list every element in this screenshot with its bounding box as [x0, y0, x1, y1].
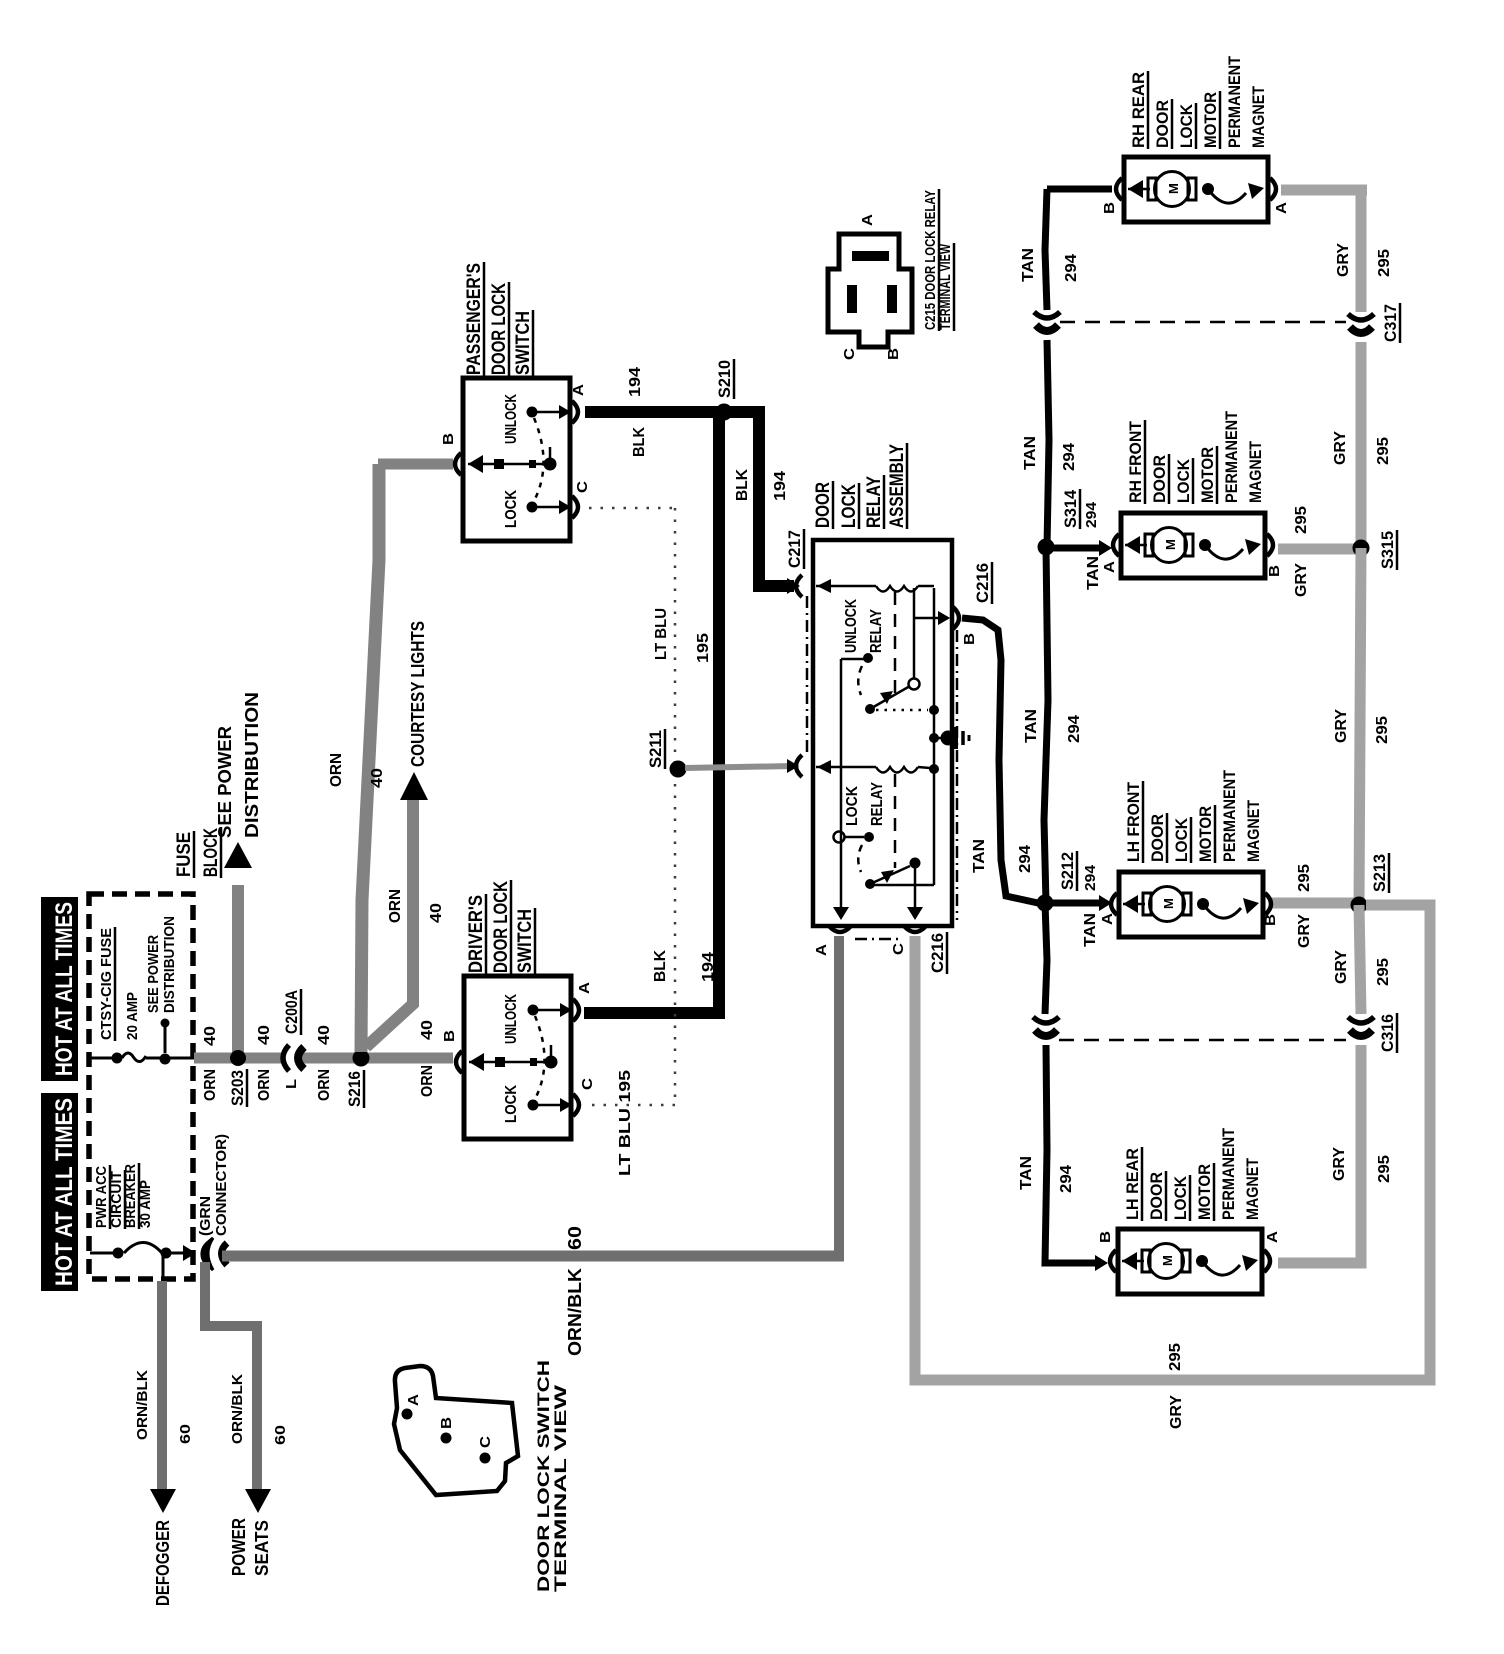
svg-text:A: A: [576, 982, 593, 994]
svg-text:TERMINAL VIEW: TERMINAL VIEW: [551, 1384, 570, 1592]
svg-text:MOTOR: MOTOR: [1198, 447, 1217, 503]
splice S314: [1038, 539, 1055, 556]
svg-text:PERMANENT: PERMANENT: [1219, 1127, 1238, 1220]
svg-text:RELAY: RELAY: [864, 476, 885, 528]
wire TAN 294 S212 to C316: [1045, 903, 1047, 1014]
svg-text:SEATS: SEATS: [252, 1520, 272, 1576]
svg-text:C216: C216: [973, 563, 992, 603]
svg-text:BLK: BLK: [652, 950, 669, 982]
relay output line to C216 B: [914, 617, 944, 620]
svg-text:LOCK: LOCK: [1174, 458, 1193, 503]
svg-text:MOTOR: MOTOR: [1196, 806, 1215, 862]
splice S315: [1353, 540, 1370, 557]
svg-text:RELAY: RELAY: [869, 782, 886, 826]
wire ORN 40 courtesy lights branch: [366, 800, 413, 1047]
svg-text:BLK: BLK: [631, 427, 648, 457]
connector C317 (GRY side): [1348, 314, 1374, 320]
svg-text:A: A: [1273, 202, 1290, 214]
splice S203: [230, 1050, 246, 1066]
svg-text:PASSENGER'S: PASSENGER'S: [464, 263, 485, 375]
svg-text:CTSY-CIG FUSE: CTSY-CIG FUSE: [98, 928, 115, 1040]
wire TAN 294 S314 to S212: [1044, 547, 1048, 903]
svg-text:S315: S315: [1378, 531, 1397, 569]
dashed line connector C316: [1059, 1039, 1346, 1042]
svg-text:DOOR: DOOR: [1150, 455, 1169, 503]
wire BLK 194 S210 to driver A: [713, 412, 725, 1013]
svg-text:C316: C316: [1378, 1014, 1397, 1052]
pin C C216: [907, 907, 923, 920]
svg-text:LOCK: LOCK: [844, 786, 861, 826]
connector (GRN CONNECTOR): [203, 1238, 213, 1270]
svg-text:LOCK: LOCK: [1177, 103, 1196, 148]
svg-text:TAN: TAN: [1018, 1156, 1035, 1190]
connector C200A: [283, 1052, 296, 1065]
lock relay coil: [817, 760, 831, 774]
connector view DOOR LOCK SWITCH TERMINAL VIEW: [394, 1366, 518, 1495]
wire GRY 295 S315 to S213: [1359, 548, 1361, 905]
svg-text:295: 295: [1167, 1343, 1184, 1371]
svg-text:SWITCH: SWITCH: [515, 909, 536, 973]
svg-text:LOCK: LOCK: [1171, 1175, 1190, 1220]
svg-text:20 AMP: 20 AMP: [124, 992, 141, 1040]
svg-text:TAN: TAN: [1022, 436, 1039, 470]
svg-text:295: 295: [1376, 1155, 1393, 1183]
motor RH REAR DOOR LOCK MOTOR PERMANENT MAGNET: [1124, 157, 1268, 222]
svg-text:TERMINAL VIEW: TERMINAL VIEW: [937, 243, 954, 330]
svg-text:B: B: [438, 1417, 455, 1429]
svg-text:UNLOCK: UNLOCK: [503, 394, 520, 444]
wire GRY 295 relay C216 C to S213 (loop): [915, 905, 1430, 1380]
svg-text:295: 295: [1374, 716, 1391, 744]
svg-text:LOCK: LOCK: [503, 1085, 520, 1123]
svg-text:GRY: GRY: [1168, 1395, 1185, 1429]
svg-text:294: 294: [1058, 1165, 1075, 1193]
svg-text:40: 40: [428, 903, 445, 923]
svg-text:195: 195: [695, 633, 712, 663]
unlock relay mech link (dashed): [894, 592, 897, 697]
svg-text:C: C: [477, 1436, 494, 1448]
wire GRY 295 trunk to C317: [1356, 190, 1367, 312]
svg-text:B: B: [961, 633, 978, 645]
svg-text:LT BLU: LT BLU: [653, 608, 670, 660]
svg-text:40: 40: [369, 768, 386, 788]
svg-text:RH FRONT: RH FRONT: [1126, 420, 1145, 503]
svg-text:RH REAR: RH REAR: [1129, 72, 1148, 148]
wire TAN 294 C216 B to S212: [962, 618, 1038, 903]
splice S213: [1351, 897, 1368, 914]
svg-text:ORN: ORN: [328, 753, 345, 787]
svg-text:C: C: [579, 1078, 596, 1090]
svg-text:A: A: [813, 944, 830, 956]
svg-text:MAGNET: MAGNET: [1243, 1157, 1262, 1220]
svg-text:SEE POWER: SEE POWER: [215, 726, 235, 838]
svg-text:DOOR: DOOR: [813, 482, 834, 528]
svg-text:DOOR LOCK: DOOR LOCK: [489, 283, 510, 375]
pin B C216: [938, 611, 950, 625]
svg-text:40: 40: [256, 1025, 273, 1045]
svg-text:C216: C216: [928, 933, 947, 973]
connector C317 (TAN side): [1034, 312, 1060, 318]
splice S211: [670, 761, 687, 778]
wire breaker to ign connector: [183, 1245, 196, 1261]
svg-text:TAN: TAN: [1082, 913, 1099, 947]
connector view C215 DOOR LOCK RELAY TERMINAL VIEW: [828, 234, 912, 347]
svg-text:ORN: ORN: [387, 889, 404, 923]
svg-text:(GRN: (GRN: [197, 1196, 214, 1236]
svg-text:LH FRONT: LH FRONT: [1124, 781, 1143, 862]
svg-text:M: M: [1160, 1255, 1175, 1266]
svg-text:295: 295: [1376, 249, 1393, 277]
wire BLK 194 S210 to C217: [724, 412, 794, 586]
wire LT BLU 195 dotted passenger C to driver C: [589, 507, 673, 510]
svg-text:40: 40: [202, 1026, 219, 1046]
svg-text:194: 194: [700, 952, 717, 982]
svg-text:40: 40: [316, 1025, 333, 1045]
svg-text:GRY: GRY: [1332, 431, 1349, 465]
svg-text:MOTOR: MOTOR: [1201, 92, 1220, 148]
svg-text:S314: S314: [1061, 489, 1080, 528]
wire ORN 40 fuse to driver's switch: [194, 1053, 453, 1064]
svg-text:DEFOGGER: DEFOGGER: [153, 1520, 173, 1606]
svg-text:S203: S203: [228, 1070, 247, 1106]
svg-text:ASSEMBLY: ASSEMBLY: [887, 444, 908, 528]
unlock relay rest contact (dotted): [876, 709, 928, 712]
svg-text:S213: S213: [1370, 854, 1389, 892]
svg-text:M: M: [1166, 183, 1181, 194]
wire TAN 294 S314 to RH front A: [1046, 545, 1104, 552]
wire TAN 294 trunk RH rear to C317: [1047, 186, 1112, 193]
svg-text:C: C: [841, 348, 858, 360]
fuse CTSY-CIG FUSE 20 AMP: [90, 1057, 117, 1060]
svg-text:B: B: [441, 1030, 458, 1042]
svg-text:30 AMP: 30 AMP: [137, 1180, 154, 1228]
svg-text:194: 194: [627, 367, 644, 397]
svg-text:GRY: GRY: [1293, 563, 1310, 597]
svg-text:A: A: [405, 1394, 422, 1406]
fuse block outline: [89, 894, 193, 1279]
svg-text:TAN: TAN: [1023, 709, 1040, 743]
wire GRY 295 S213 to C316: [1359, 905, 1361, 1014]
svg-text:A: A: [1101, 561, 1118, 573]
wire GRY 295 C317 to S315: [1356, 342, 1367, 548]
lock relay mech link (dashed): [894, 774, 897, 868]
switch PASSENGER'S DOOR LOCK SWITCH: [463, 378, 570, 541]
svg-text:ORN/BLK: ORN/BLK: [565, 1268, 585, 1356]
switch DRIVER'S DOOR LOCK SWITCH: [464, 976, 571, 1139]
svg-text:UNLOCK: UNLOCK: [503, 994, 520, 1044]
svg-text:PERMANENT: PERMANENT: [1222, 410, 1241, 503]
see power distribution tap (fuse block): [164, 1026, 167, 1053]
svg-text:COURTESY LIGHTS: COURTESY LIGHTS: [408, 621, 428, 767]
wire ORN see power distribution riser: [232, 885, 244, 1055]
relay internal feed line (pin A riser): [840, 659, 843, 912]
connector C217: [796, 575, 802, 597]
svg-text:60: 60: [177, 1424, 194, 1444]
svg-text:S210: S210: [715, 360, 734, 398]
svg-text:GRY: GRY: [1333, 950, 1350, 984]
svg-text:S216: S216: [345, 1071, 364, 1107]
svg-text:LH REAR: LH REAR: [1123, 1148, 1142, 1220]
svg-text:C: C: [890, 943, 907, 955]
svg-text:B: B: [1266, 565, 1283, 577]
wire GRY 295 C316 to LH rear A: [1278, 1045, 1361, 1263]
wire TAN 294 S212 to LH front A: [1045, 900, 1104, 907]
svg-text:TAN: TAN: [1085, 556, 1102, 590]
svg-text:295: 295: [1375, 437, 1392, 465]
svg-text:294: 294: [1082, 864, 1099, 891]
svg-text:B: B: [1101, 202, 1118, 214]
lock relay rest contact: [870, 884, 934, 887]
connector C316 (GRY side): [1348, 1017, 1374, 1023]
svg-text:PERMANENT: PERMANENT: [1225, 55, 1244, 148]
svg-text:GRY: GRY: [1331, 1147, 1348, 1181]
wire BLK 194 passenger A to S210: [585, 406, 731, 418]
svg-text:B: B: [440, 433, 457, 445]
svg-text:DISTRIBUTION: DISTRIBUTION: [161, 916, 178, 1013]
splice S212: [1037, 895, 1054, 912]
svg-text:C: C: [574, 481, 591, 493]
wire TAN 294 C316 to LH rear B: [1045, 1045, 1100, 1263]
svg-text:A: A: [859, 214, 876, 226]
svg-text:GRY: GRY: [1335, 243, 1352, 277]
svg-text:C200A: C200A: [282, 990, 301, 1034]
svg-text:294: 294: [1061, 443, 1078, 471]
wire ORN/BLK power seats branch: [205, 1262, 257, 1492]
svg-text:DOOR: DOOR: [1148, 814, 1167, 862]
svg-text:60: 60: [565, 1226, 585, 1250]
svg-text:LT BLU 195: LT BLU 195: [617, 1070, 634, 1176]
svg-text:FUSE: FUSE: [174, 832, 195, 877]
svg-text:M: M: [1161, 898, 1176, 909]
svg-text:PERMANENT: PERMANENT: [1220, 769, 1239, 862]
svg-text:M: M: [1163, 539, 1178, 550]
relay ground bus: [933, 588, 936, 885]
power label HOT AT ALL TIMES (fuse side): [41, 897, 78, 1081]
connector C316 (TAN side): [1033, 1017, 1059, 1023]
svg-text:ORN/BLK: ORN/BLK: [134, 1370, 151, 1440]
svg-text:ORN/BLK: ORN/BLK: [229, 1374, 246, 1444]
svg-text:SEE POWER: SEE POWER: [145, 935, 162, 1013]
svg-text:S212: S212: [1058, 852, 1077, 890]
svg-text:295: 295: [1293, 506, 1310, 534]
dashed line connector C317: [1060, 321, 1346, 324]
unlock relay armature: [841, 658, 868, 661]
svg-text:40: 40: [419, 1020, 436, 1040]
svg-text:CONNECTOR): CONNECTOR): [213, 1134, 230, 1236]
circuit breaker PWR ACC 30 AMP: [90, 1252, 118, 1255]
svg-text:ORN: ORN: [256, 1069, 273, 1101]
lock relay armature: [834, 832, 845, 843]
svg-text:295: 295: [1375, 958, 1392, 986]
svg-text:294: 294: [1017, 845, 1034, 873]
svg-text:A: A: [570, 384, 587, 396]
motor RH FRONT DOOR LOCK MOTOR PERMANENT MAGNET: [1121, 513, 1265, 578]
svg-text:DRIVER'S: DRIVER'S: [466, 895, 487, 973]
svg-text:LOCK: LOCK: [839, 484, 860, 528]
svg-text:S211: S211: [646, 730, 665, 768]
svg-text:MAGNET: MAGNET: [1249, 85, 1268, 148]
connector line C216 (dash-dot): [956, 630, 959, 920]
terminal B (switch view): [441, 1433, 452, 1444]
svg-text:DISTRIBUTION: DISTRIBUTION: [242, 692, 262, 838]
relay box DOOR LOCK RELAY ASSEMBLY: [813, 540, 952, 926]
power label HOT AT ALL TIMES (breaker side): [41, 1093, 78, 1291]
svg-text:DOOR LOCK: DOOR LOCK: [491, 881, 512, 973]
svg-text:MOTOR: MOTOR: [1195, 1164, 1214, 1220]
ground (relay assembly): [929, 733, 939, 743]
svg-text:A: A: [1264, 1231, 1281, 1243]
svg-text:HOT AT ALL TIMES: HOT AT ALL TIMES: [51, 902, 78, 1076]
wire GRY 295 RH front B to S315: [1278, 544, 1356, 555]
svg-text:A: A: [1099, 913, 1116, 925]
svg-text:60: 60: [272, 1425, 289, 1445]
wire ORN 40 riser to passenger's switch: [361, 464, 379, 1052]
svg-text:295: 295: [1296, 864, 1313, 892]
svg-text:BLK: BLK: [734, 469, 751, 501]
svg-text:LOCK: LOCK: [1172, 817, 1191, 862]
svg-text:294: 294: [1066, 715, 1083, 743]
svg-text:ORN: ORN: [316, 1069, 333, 1101]
wire ORN/BLK defogger branch: [162, 1256, 165, 1281]
svg-text:DOOR: DOOR: [1153, 100, 1172, 148]
splice S216: [353, 1050, 370, 1067]
wire LT BLU 195 S211 to C217: [685, 766, 793, 768]
svg-text:B: B: [885, 348, 902, 360]
motor LH REAR DOOR LOCK MOTOR PERMANENT MAGNET: [1118, 1229, 1262, 1294]
wire TAN 294 C317 to S314: [1047, 340, 1049, 547]
svg-text:GRY: GRY: [1333, 709, 1350, 743]
svg-text:B: B: [1097, 1231, 1114, 1243]
svg-text:DOOR: DOOR: [1147, 1172, 1166, 1220]
motor LH FRONT DOOR LOCK MOTOR PERMANENT MAGNET: [1119, 872, 1263, 937]
svg-text:MAGNET: MAGNET: [1244, 799, 1263, 862]
svg-text:RELAY: RELAY: [868, 609, 885, 653]
svg-text:GRY: GRY: [1296, 914, 1313, 948]
svg-text:POWER: POWER: [229, 1518, 249, 1576]
svg-text:HOT AT ALL TIMES: HOT AT ALL TIMES: [51, 1098, 78, 1286]
svg-text:TAN: TAN: [1020, 248, 1037, 282]
svg-text:ORN: ORN: [202, 1069, 219, 1101]
pin A C216: [833, 907, 849, 920]
wire GRY 295 RH rear A to trunk: [1281, 185, 1367, 196]
svg-text:294: 294: [1083, 501, 1100, 528]
wire ORN/BLK 60 relay A to splice run: [834, 936, 844, 1252]
svg-text:C217: C217: [785, 530, 804, 568]
terminal C (switch view): [480, 1453, 491, 1464]
svg-text:194: 194: [772, 471, 789, 501]
unlock relay coil: [817, 579, 831, 593]
svg-text:SWITCH: SWITCH: [513, 311, 534, 375]
wire ORN/BLK 60 to door lock relay: [222, 1251, 844, 1262]
svg-text:TAN: TAN: [971, 839, 988, 873]
svg-text:MAGNET: MAGNET: [1246, 440, 1265, 503]
svg-text:LOCK: LOCK: [503, 490, 520, 528]
svg-text:C317: C317: [1381, 304, 1400, 342]
terminal A (switch view): [402, 1409, 413, 1420]
svg-text:UNLOCK: UNLOCK: [843, 599, 860, 653]
svg-text:294: 294: [1063, 254, 1080, 282]
wire GRY 295 LH front B to S213: [1272, 898, 1354, 909]
splice S210: [716, 404, 733, 421]
svg-text:L: L: [283, 1079, 300, 1089]
svg-text:ORN: ORN: [419, 1065, 436, 1097]
